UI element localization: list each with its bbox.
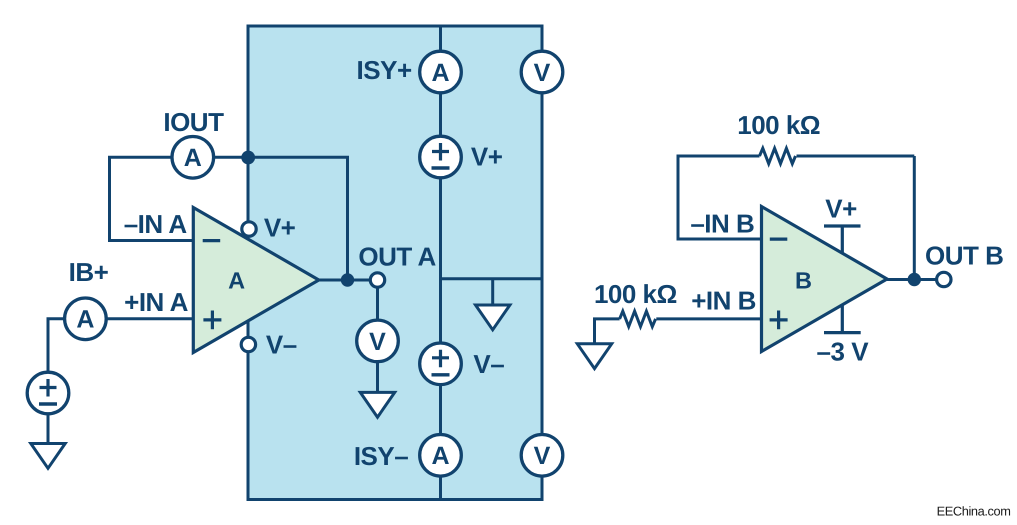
svg-text:B: B	[795, 268, 812, 294]
svg-text:–3 V: –3 V	[817, 336, 870, 366]
svg-text:OUT B: OUT B	[925, 241, 1003, 271]
svg-text:–IN B: –IN B	[690, 209, 754, 239]
svg-text:ISY–: ISY–	[354, 441, 408, 471]
svg-text:A: A	[431, 59, 449, 87]
svg-text:100 kΩ: 100 kΩ	[594, 279, 677, 309]
svg-text:OUT A: OUT A	[358, 242, 436, 272]
svg-text:A: A	[76, 306, 94, 334]
svg-text:V: V	[534, 442, 551, 470]
svg-text:A: A	[431, 442, 449, 470]
svg-text:V+: V+	[471, 142, 503, 172]
svg-text:+IN A: +IN A	[124, 287, 188, 317]
svg-text:A: A	[184, 144, 202, 172]
svg-text:V+: V+	[825, 193, 857, 223]
svg-text:A: A	[228, 268, 245, 294]
svg-text:ISY+: ISY+	[357, 55, 412, 85]
svg-text:V–: V–	[473, 349, 504, 379]
svg-text:V: V	[369, 328, 386, 356]
svg-text:V+: V+	[264, 212, 296, 242]
svg-text:V: V	[534, 59, 551, 87]
svg-text:IB+: IB+	[69, 257, 109, 287]
svg-text:EEChina.com: EEChina.com	[937, 504, 1011, 519]
svg-text:+IN B: +IN B	[691, 285, 756, 315]
svg-text:V–: V–	[266, 329, 297, 359]
svg-text:100 kΩ: 100 kΩ	[737, 110, 820, 140]
svg-text:–IN A: –IN A	[124, 209, 188, 239]
svg-text:IOUT: IOUT	[163, 107, 224, 137]
